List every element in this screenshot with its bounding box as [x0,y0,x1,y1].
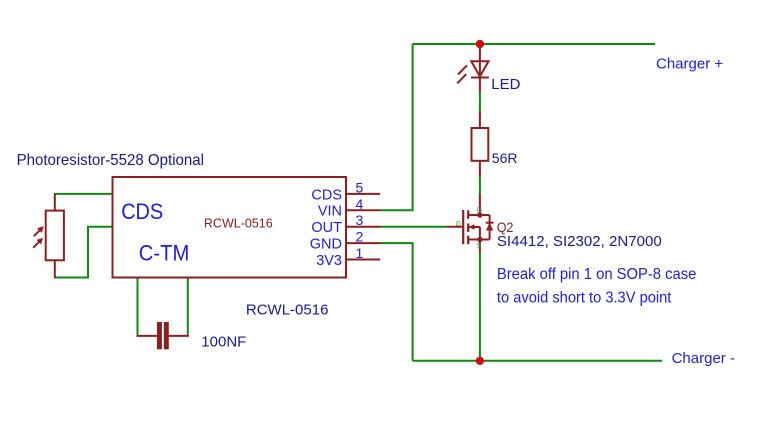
svg-text:3: 3 [356,212,364,228]
wire top horizontal (Charger +) [413,43,655,45]
svg-text:Charger -: Charger - [672,350,735,367]
transistor Q2 channel bars [467,210,469,244]
wire module to capacitor left [137,279,139,336]
LED ray 2 [457,74,466,83]
svg-text:to avoid short to 3.3V point: to avoid short to 3.3V point [497,289,672,306]
photoresistor top pin [54,194,56,211]
svg-text:SI4412, SI2302, 2N7000: SI4412, SI2302, 2N7000 [497,234,662,250]
pin 3 OUT stub [346,226,380,228]
transistor Q2 drain pin [468,194,480,215]
transistor Q2 body diode [480,215,494,240]
photoresistor arrow 1 [34,227,43,236]
svg-text:GND: GND [310,237,342,253]
transistor Q2 source junction dot [477,237,482,242]
capacitor C1 right plate [164,322,169,349]
transistor Q2 gate pin [446,226,462,228]
svg-text:LED: LED [491,76,520,93]
wire module to capacitor right [187,279,189,336]
module U1 RCWL-0516 body [113,177,347,278]
wire source to bottom [479,252,481,361]
wire resistor to drain [479,177,481,195]
svg-text:CDS: CDS [311,187,342,203]
wire left riser VIN to top [380,44,413,210]
capacitor C1 left plate [157,322,162,349]
resistor R1 top pin [479,111,481,128]
LED triangle [471,61,488,76]
svg-text:Charger +: Charger + [656,55,723,72]
svg-text:3V3: 3V3 [316,253,342,269]
resistor R1 body [472,128,489,161]
LED bottom pin [479,78,481,93]
junction dot bottom [476,357,484,365]
pin 1 3V3 stub [346,259,380,261]
transistor Q2 bulk arrow [468,224,480,239]
svg-text:4: 4 [356,196,364,212]
svg-text:S: S [477,243,482,250]
transistor Q2 body diode triangle [486,223,493,231]
svg-text:Photoresistor-5528 Optional: Photoresistor-5528 Optional [17,152,204,169]
svg-text:OUT: OUT [311,220,342,236]
photoresistor R3 body [46,211,64,261]
svg-text:1: 1 [356,245,364,261]
svg-text:D: D [477,207,482,214]
svg-text:Break off pin 1 on SOP-8 case: Break off pin 1 on SOP-8 case [497,266,697,283]
pin 2 GND stub [346,242,380,244]
LED cathode bar [471,77,489,79]
LED ray 1 [458,65,467,74]
svg-text:56R: 56R [492,150,518,166]
capacitor left lead [137,335,157,337]
resistor R1 bottom pin [479,161,481,177]
svg-text:RCWL-0516: RCWL-0516 [246,302,329,319]
photoresistor arrow 2 [33,239,42,248]
pin 4 VIN stub [346,209,380,211]
svg-text:VIN: VIN [318,204,342,220]
svg-text:100NF: 100NF [201,334,246,351]
wire bottom horizontal (Charger -) [413,360,662,362]
photoresistor bottom pin [54,260,56,277]
transistor Q2 gate line [462,210,464,244]
svg-text:G: G [456,221,461,228]
wire photoresistor bottom to module [54,227,112,278]
capacitor right lead [169,335,189,337]
svg-text:5: 5 [356,179,364,195]
svg-text:CDS: CDS [121,199,163,224]
LED D1 top pin [479,44,481,78]
wire OUT to gate [380,226,447,228]
junction dot top [476,40,484,48]
transistor Q2 source pin [468,240,480,253]
wire GND down to bottom [380,243,413,361]
svg-text:2: 2 [356,229,364,245]
svg-text:RCWL-0516: RCWL-0516 [204,217,273,231]
pin 5 CDS stub [346,193,380,195]
svg-text:Q2: Q2 [497,219,514,235]
wire photoresistor top to module [54,193,112,195]
transistor Q2 drain junction dot [477,212,482,217]
wire LED to resistor [479,92,481,112]
svg-text:C-TM: C-TM [139,240,190,265]
